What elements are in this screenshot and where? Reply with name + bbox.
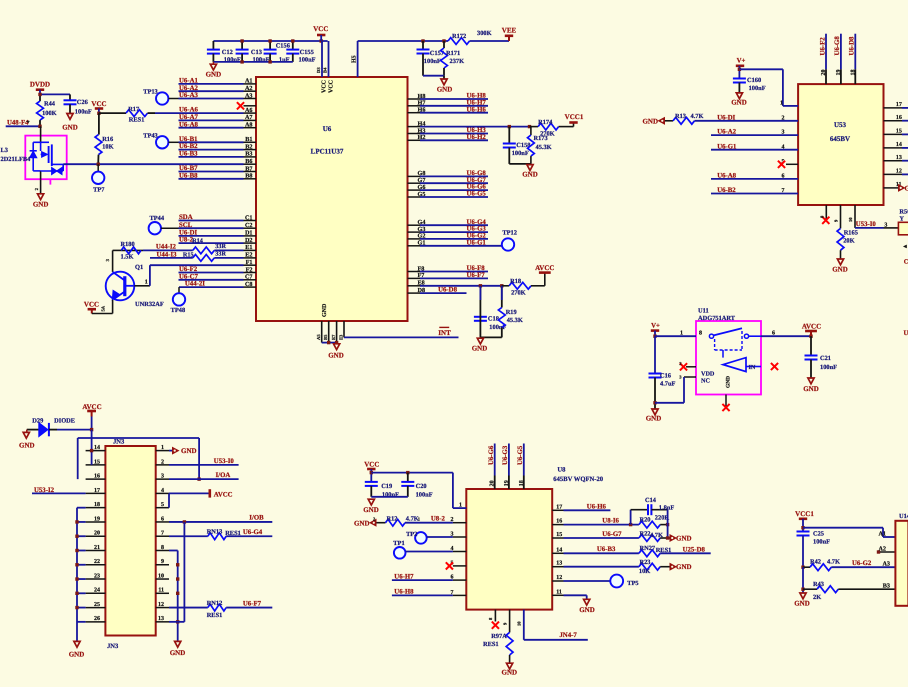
svg-text:U53: U53 bbox=[834, 121, 847, 129]
resistor R180 1.5K bbox=[105, 241, 143, 272]
svg-text:A8: A8 bbox=[245, 122, 253, 129]
svg-text:4: 4 bbox=[161, 488, 164, 494]
svg-text:12: 12 bbox=[556, 575, 562, 581]
svg-text:GND: GND bbox=[69, 651, 85, 659]
svg-text:RN13: RN13 bbox=[207, 529, 223, 536]
capacitor C160 100nF bbox=[733, 77, 766, 93]
svg-text:10: 10 bbox=[516, 621, 521, 626]
net SDA bbox=[179, 214, 244, 221]
svg-text:GND: GND bbox=[33, 200, 49, 208]
svg-text:10: 10 bbox=[158, 573, 164, 579]
ground below U6 bbox=[328, 343, 344, 360]
svg-text:JN3: JN3 bbox=[113, 439, 125, 446]
svg-text:VCC: VCC bbox=[364, 461, 379, 469]
resistor R165 20K below U53 pin 9 bbox=[834, 205, 858, 259]
svg-text:RES1: RES1 bbox=[656, 547, 672, 554]
svg-text:C20: C20 bbox=[416, 483, 427, 490]
U11 pin 4 IN no-connect bbox=[771, 363, 778, 370]
svg-text:AVCC: AVCC bbox=[82, 403, 101, 411]
svg-text:U6-D8: U6-D8 bbox=[438, 287, 457, 294]
svg-text:GND: GND bbox=[803, 385, 819, 393]
clipped net label right of U11 bbox=[904, 330, 908, 337]
svg-text:1: 1 bbox=[780, 100, 783, 106]
svg-text:I/OA: I/OA bbox=[216, 472, 231, 479]
svg-text:D29: D29 bbox=[32, 417, 43, 424]
net U48-F4 into gate node bbox=[6, 120, 40, 127]
svg-text:17: 17 bbox=[94, 488, 100, 494]
svg-text:E3: E3 bbox=[338, 334, 343, 340]
svg-text:12: 12 bbox=[158, 602, 164, 608]
wire caps bottom rail bbox=[213, 61, 292, 63]
svg-text:R15: R15 bbox=[183, 251, 194, 258]
svg-text:3: 3 bbox=[884, 223, 887, 229]
net U6-B1 with test point TP43 bbox=[143, 133, 243, 149]
svg-text:◀: ◀ bbox=[903, 244, 908, 249]
svg-text:20: 20 bbox=[821, 70, 827, 76]
svg-text:TP12: TP12 bbox=[502, 230, 517, 237]
svg-text:U6-F7: U6-F7 bbox=[467, 272, 486, 279]
svg-text:C8: C8 bbox=[245, 281, 253, 288]
svg-text:U53-I0: U53-I0 bbox=[214, 458, 235, 465]
wire JN3 pin 5 up to pin 4 bbox=[168, 493, 170, 507]
net U6-F2 into U53 pin 20 bbox=[819, 34, 827, 84]
svg-text:U44-I2: U44-I2 bbox=[156, 244, 177, 251]
test point TP5 on U8 pin 12 bbox=[564, 575, 639, 588]
svg-text:GND: GND bbox=[62, 124, 78, 132]
U11 pin 6 to AVCC bbox=[761, 330, 813, 338]
U6 right pin stubs and pin names bbox=[408, 93, 426, 294]
svg-text:B6: B6 bbox=[245, 158, 252, 165]
svg-text:JN4-7: JN4-7 bbox=[559, 632, 577, 639]
svg-text:U6-G7: U6-G7 bbox=[602, 531, 622, 538]
svg-text:TP7: TP7 bbox=[93, 187, 105, 194]
svg-text:8: 8 bbox=[699, 330, 702, 336]
svg-text:GND: GND bbox=[731, 99, 747, 107]
svg-text:V+: V+ bbox=[651, 322, 660, 329]
resistor RN13 RES1 to net U6-G4 on JN3 pin 7 bbox=[169, 529, 272, 540]
ground left of D29 bbox=[19, 430, 35, 450]
svg-text:D1: D1 bbox=[245, 230, 253, 237]
svg-text:100nF: 100nF bbox=[749, 85, 766, 92]
net U6-A1 bbox=[179, 78, 244, 85]
power DVDD bbox=[30, 81, 50, 95]
capacitor C25 100nF bbox=[797, 530, 831, 567]
U8 bottom pin 8 no-connect bbox=[488, 610, 499, 629]
svg-text:INT: INT bbox=[438, 329, 451, 337]
ground below C26 bbox=[62, 114, 78, 132]
resistor R23 10K to ground on U8 pin 13 bbox=[564, 559, 670, 575]
svg-text:11: 11 bbox=[158, 588, 164, 594]
wire VCC top rail bbox=[213, 40, 327, 42]
svg-text:I/OB: I/OB bbox=[249, 514, 264, 521]
svg-text:TP13: TP13 bbox=[143, 89, 158, 96]
svg-text:15: 15 bbox=[94, 459, 100, 465]
svg-text:AVCC: AVCC bbox=[802, 322, 821, 330]
net U6-F2 bbox=[179, 266, 244, 273]
resistor R173 45.3K bbox=[528, 127, 552, 164]
net U6-A8 bbox=[179, 121, 244, 128]
ground below R97A bbox=[502, 663, 518, 676]
resistor R15 33R on net U44-I3 (pin E2) bbox=[150, 251, 244, 262]
svg-text:VCC: VCC bbox=[91, 100, 106, 108]
resistor R172 300K bbox=[448, 30, 509, 44]
net U6-G5 into U8 pin 18 bbox=[517, 444, 525, 490]
capacitor C16 4.7uF bbox=[649, 336, 676, 409]
no-connect X on U8 pin 5 bbox=[446, 562, 453, 569]
svg-text:AVCC: AVCC bbox=[214, 491, 233, 498]
svg-text:C16: C16 bbox=[660, 372, 672, 379]
svg-text:GND: GND bbox=[19, 442, 35, 450]
svg-text:U6-A3: U6-A3 bbox=[179, 92, 198, 99]
svg-text:A3: A3 bbox=[882, 560, 890, 567]
svg-text:1: 1 bbox=[145, 280, 148, 286]
svg-text:R172: R172 bbox=[452, 33, 466, 40]
svg-text:18: 18 bbox=[94, 502, 100, 508]
svg-text:R23: R23 bbox=[640, 559, 651, 566]
junction at AVCC/diode node bbox=[90, 428, 93, 431]
svg-text:R20: R20 bbox=[640, 517, 651, 524]
svg-text:R180: R180 bbox=[121, 241, 135, 248]
svg-text:GND: GND bbox=[832, 265, 848, 273]
test point TP1 on U8 pin 4 bbox=[393, 540, 453, 559]
svg-text:GND: GND bbox=[363, 506, 379, 514]
svg-text:U53-I0: U53-I0 bbox=[856, 221, 877, 228]
diode D29 bbox=[27, 417, 92, 436]
svg-text:U6-H2: U6-H2 bbox=[467, 134, 487, 141]
svg-text:100nF: 100nF bbox=[512, 150, 529, 157]
svg-text:C7: C7 bbox=[245, 274, 253, 281]
no-connect X on U53 pin 5 bbox=[778, 161, 785, 168]
svg-text:2: 2 bbox=[161, 459, 164, 465]
svg-text:100nF: 100nF bbox=[416, 491, 433, 498]
svg-text:LPC11U37: LPC11U37 bbox=[311, 148, 344, 156]
svg-text:1.8nF: 1.8nF bbox=[659, 504, 675, 511]
svg-text:8: 8 bbox=[488, 617, 493, 620]
svg-text:1: 1 bbox=[459, 503, 462, 509]
net U6-B3 with resistor RN27 RES1 to net U25-D8 on U8 pin 14 bbox=[564, 545, 711, 557]
svg-text:U44-I3: U44-I3 bbox=[157, 251, 178, 258]
svg-text:645BV: 645BV bbox=[830, 135, 850, 143]
svg-text:C26: C26 bbox=[77, 99, 89, 106]
svg-text:25: 25 bbox=[94, 602, 100, 608]
capacitor C14 1.8nF parallel with R20 bbox=[631, 497, 675, 538]
net U6-G5 bbox=[420, 191, 488, 198]
svg-text:RES1: RES1 bbox=[225, 530, 241, 537]
net U6-H7 bbox=[420, 99, 488, 106]
svg-text:U6-H8: U6-H8 bbox=[394, 589, 414, 596]
svg-text:U6-F2: U6-F2 bbox=[179, 266, 198, 273]
power VCC1 right of R174 bbox=[565, 113, 584, 123]
svg-text:U6-A2: U6-A2 bbox=[179, 85, 198, 92]
svg-text:100nF: 100nF bbox=[299, 56, 316, 63]
svg-text:U8-I6: U8-I6 bbox=[602, 517, 619, 524]
svg-text:RES1: RES1 bbox=[207, 612, 223, 619]
svg-text:19: 19 bbox=[504, 480, 510, 486]
svg-text:IN: IN bbox=[749, 364, 756, 371]
svg-text:11: 11 bbox=[556, 589, 562, 595]
svg-text:C1: C1 bbox=[245, 214, 253, 221]
net U6-G7 bbox=[420, 177, 488, 184]
svg-text:R42: R42 bbox=[810, 558, 821, 565]
svg-text:U: U bbox=[904, 330, 908, 337]
svg-text:U6-G3: U6-G3 bbox=[502, 445, 509, 465]
svg-text:14: 14 bbox=[94, 445, 100, 451]
svg-text:F2: F2 bbox=[246, 266, 253, 273]
svg-text:U53-I2: U53-I2 bbox=[34, 487, 55, 494]
ground right of R22 bbox=[670, 534, 692, 542]
svg-text:U6-A7: U6-A7 bbox=[179, 114, 198, 121]
svg-text:4.7K: 4.7K bbox=[827, 558, 840, 565]
svg-text:GND: GND bbox=[437, 85, 453, 93]
U6 pin H5 wire to top rail bbox=[351, 41, 448, 77]
svg-text:TP44: TP44 bbox=[150, 215, 165, 222]
svg-text:7: 7 bbox=[161, 531, 164, 537]
svg-text:H5: H5 bbox=[351, 55, 357, 63]
svg-text:TP5: TP5 bbox=[627, 580, 638, 587]
svg-text:19: 19 bbox=[836, 70, 842, 76]
svg-text:DVDD: DVDD bbox=[30, 81, 50, 89]
svg-text:U6: U6 bbox=[323, 125, 332, 133]
ground below R171 bbox=[437, 76, 453, 94]
svg-text:U6-H7: U6-H7 bbox=[394, 573, 414, 580]
svg-text:U6-B2: U6-B2 bbox=[179, 143, 198, 150]
svg-text:VCC: VCC bbox=[313, 25, 328, 33]
wire V+ to U53 pin 1 bbox=[739, 69, 798, 106]
ground below C18 bbox=[472, 338, 488, 352]
svg-text:100nF: 100nF bbox=[813, 539, 830, 546]
capacitor C20 100nF bbox=[401, 473, 432, 499]
svg-text:R18: R18 bbox=[510, 278, 521, 285]
svg-text:1: 1 bbox=[418, 517, 421, 522]
svg-text:UNR32AF: UNR32AF bbox=[135, 301, 164, 308]
svg-text:E2: E2 bbox=[245, 252, 252, 259]
svg-text:19: 19 bbox=[94, 516, 100, 522]
svg-text:B8: B8 bbox=[245, 173, 252, 180]
power VEE bbox=[502, 27, 517, 42]
svg-text:100K: 100K bbox=[42, 110, 57, 117]
net U6-G3 into U8 pin 19 bbox=[502, 444, 510, 490]
power V+ for U53 bbox=[736, 58, 746, 79]
svg-text:300K: 300K bbox=[477, 30, 492, 37]
svg-text:13: 13 bbox=[158, 616, 164, 622]
svg-text:U6-B1: U6-B1 bbox=[179, 136, 198, 143]
svg-text:U44-2I: U44-2I bbox=[185, 280, 205, 287]
svg-text:5: 5 bbox=[161, 502, 164, 508]
wire INT from U6 bottom pin bbox=[338, 321, 458, 340]
svg-text:B2: B2 bbox=[245, 143, 252, 150]
junction at DVDD node bbox=[38, 93, 41, 96]
svg-text:U6-A8: U6-A8 bbox=[717, 173, 736, 180]
svg-text:GND: GND bbox=[905, 184, 908, 192]
ground below C25/R43 node bbox=[794, 593, 810, 608]
svg-text:24: 24 bbox=[94, 588, 100, 594]
svg-text:VCC1: VCC1 bbox=[795, 510, 814, 518]
U6 bottom ground pins bbox=[316, 321, 338, 344]
svg-text:U6-B7: U6-B7 bbox=[179, 165, 198, 172]
svg-text:18: 18 bbox=[850, 70, 856, 76]
U8 right pin numbers bbox=[552, 504, 563, 595]
net U6-B7 bbox=[179, 165, 244, 172]
svg-text:C19: C19 bbox=[381, 483, 392, 490]
power AVCC right of U11 bbox=[802, 322, 821, 336]
resistor R50 (clipped at edge) bbox=[898, 208, 908, 234]
JN3 right pin stubs 1-13 bbox=[156, 445, 169, 622]
net U8-I6 with resistor R20 220R on U8 pin 16 bbox=[564, 514, 670, 528]
svg-text:3: 3 bbox=[161, 474, 164, 480]
ground and resistor R13 4.7K to U53 pin 2 bbox=[642, 113, 711, 126]
svg-text:U6-F7: U6-F7 bbox=[243, 601, 262, 608]
capacitor C13 100nF bbox=[236, 41, 270, 63]
JN3 left pin stubs 14-26 bbox=[86, 445, 106, 622]
power VCC for U8 bbox=[364, 461, 379, 482]
connector JN3 body bbox=[105, 439, 155, 650]
transistor Q1 UNR32AF bbox=[106, 264, 164, 313]
svg-text:V+: V+ bbox=[737, 58, 746, 65]
svg-text:14: 14 bbox=[556, 547, 562, 553]
net U6-H2 bbox=[420, 134, 488, 141]
net U6-D8 into U53 pin 18 bbox=[849, 34, 857, 84]
power VCC at Q1 emitter bbox=[84, 301, 113, 314]
svg-text:6: 6 bbox=[772, 330, 775, 336]
svg-text:2: 2 bbox=[34, 187, 39, 190]
svg-text:GND: GND bbox=[646, 414, 662, 422]
net U6-G1 with test point TP12 bbox=[420, 230, 517, 251]
ground below JN3 right bbox=[170, 641, 186, 657]
net label INT with overline bbox=[438, 327, 451, 337]
svg-text:U6-G1: U6-G1 bbox=[717, 143, 737, 150]
svg-text:5A: 5A bbox=[101, 305, 106, 311]
svg-text:4.7K: 4.7K bbox=[691, 113, 704, 120]
svg-text:L3: L3 bbox=[1, 147, 8, 154]
net SCL with test point TP44 bbox=[149, 215, 244, 235]
svg-text:3: 3 bbox=[105, 258, 110, 261]
net U6-G4 bbox=[420, 219, 488, 226]
svg-text:TP48: TP48 bbox=[171, 307, 186, 314]
svg-text:17: 17 bbox=[556, 504, 562, 510]
net U6-B3 bbox=[179, 151, 244, 158]
net U53-I2 on JN3 pin 17 bbox=[32, 487, 86, 494]
svg-text:U6-G8: U6-G8 bbox=[834, 36, 841, 56]
svg-text:23: 23 bbox=[94, 573, 100, 579]
net U6-F8 bbox=[420, 265, 488, 272]
resistor RN12 RES1 to net U6-F7 on JN3 pin 12 bbox=[169, 600, 272, 619]
svg-text:GND: GND bbox=[502, 669, 518, 677]
ground right of JN3 pin 1 bbox=[169, 447, 197, 455]
svg-text:U6-B3: U6-B3 bbox=[179, 151, 198, 158]
svg-text:4.7uF: 4.7uF bbox=[660, 381, 676, 388]
power V+ for U11 bbox=[651, 322, 660, 338]
svg-text:U8: U8 bbox=[557, 467, 566, 474]
svg-text:RN12: RN12 bbox=[207, 600, 223, 607]
wire VCC1 to U14 pin A1 bbox=[801, 526, 895, 537]
resistor R42 4.7K to net U6-G2 on U14 pin A3 bbox=[801, 558, 895, 570]
net U6-H6 bbox=[420, 106, 488, 113]
svg-text:GND: GND bbox=[181, 447, 197, 455]
U53 bottom pin 8 no-connect bbox=[820, 205, 830, 224]
svg-text:R22: R22 bbox=[640, 531, 651, 538]
ground right of R23 bbox=[670, 563, 692, 571]
net U6-G6 bbox=[420, 184, 488, 191]
wire JN3 pins 18-26 to ground bbox=[75, 508, 85, 642]
capacitor C21 100nF bbox=[805, 336, 838, 378]
svg-text:TP1: TP1 bbox=[393, 540, 404, 547]
svg-text:100nF: 100nF bbox=[75, 109, 92, 116]
resistor R43 2K on U14 pin B3 bbox=[801, 567, 895, 601]
test point TP2 on U8 pin 3 bbox=[406, 531, 453, 544]
svg-text:270K: 270K bbox=[511, 290, 526, 297]
IC U8 645BV WQFN-20 body bbox=[466, 467, 603, 610]
net U6-G3 bbox=[420, 226, 488, 233]
power VCC1 bottom right bbox=[795, 510, 814, 532]
net I/OA on JN3 pin 3 bbox=[169, 472, 239, 479]
svg-text:U6-A1: U6-A1 bbox=[179, 78, 198, 85]
svg-text:237K: 237K bbox=[450, 58, 465, 65]
svg-text:RES1: RES1 bbox=[129, 116, 145, 123]
svg-text:20: 20 bbox=[94, 531, 100, 537]
capacitor C18 100nF bbox=[474, 286, 507, 338]
wire AVCC stem to JN3 pins 14-15 bbox=[90, 430, 93, 465]
wire loop joining JN3 pin 16 and pin 3 bbox=[78, 438, 201, 481]
svg-text:A5: A5 bbox=[316, 334, 321, 340]
clipped capacitor marks at right edge bbox=[903, 244, 908, 266]
resistor R97A RES1 below U8 pin 9 bbox=[483, 610, 513, 664]
svg-text:R19: R19 bbox=[506, 309, 517, 316]
net U8-2 bbox=[179, 237, 244, 244]
svg-text:R174: R174 bbox=[538, 119, 553, 126]
switch contacts inside U11 bbox=[709, 328, 761, 371]
wire DVDD rail bbox=[40, 94, 70, 101]
U14 pin A2 stub bbox=[877, 545, 896, 553]
U53 left pins with nets bbox=[711, 114, 798, 194]
svg-text:R16: R16 bbox=[102, 136, 114, 143]
junctions on cap rails bbox=[240, 39, 323, 63]
svg-text:U6-A8: U6-A8 bbox=[179, 121, 198, 128]
svg-text:DIODE: DIODE bbox=[54, 417, 75, 424]
U11 pin 2 VDD no-connect bbox=[679, 361, 715, 378]
svg-text:U14: U14 bbox=[899, 513, 908, 520]
ground below mosfet bbox=[33, 179, 49, 208]
svg-text:U6-DI: U6-DI bbox=[717, 114, 735, 121]
IC U6 LPC11U37 microcontroller body bbox=[256, 77, 408, 321]
svg-text:E7: E7 bbox=[331, 334, 336, 340]
resistor R17 RES1 to pin A6 bbox=[99, 106, 244, 123]
power VCC above U6 bbox=[313, 25, 328, 41]
svg-text:VCC: VCC bbox=[329, 80, 335, 93]
net U6-G2 bbox=[420, 233, 488, 240]
capacitor C158 100nF bbox=[503, 127, 531, 164]
svg-text:VCC: VCC bbox=[84, 301, 99, 309]
svg-text:U6-H6: U6-H6 bbox=[467, 106, 487, 113]
ground right of U53 pin 11 bbox=[899, 184, 908, 192]
svg-text:Q1: Q1 bbox=[135, 264, 143, 271]
analog switch U11 ADG751ART select box bbox=[696, 307, 761, 394]
svg-text:1.5K: 1.5K bbox=[121, 254, 134, 261]
svg-text:R13: R13 bbox=[675, 113, 686, 120]
svg-text:A1: A1 bbox=[878, 530, 886, 537]
junction at gate node bbox=[38, 125, 41, 128]
svg-text:9: 9 bbox=[834, 219, 839, 222]
svg-text:1: 1 bbox=[161, 445, 164, 451]
svg-text:C12: C12 bbox=[222, 49, 233, 56]
svg-text:GND: GND bbox=[579, 606, 595, 614]
svg-text:GND: GND bbox=[676, 563, 692, 571]
wire mosfet drain to U6 pin B6 bbox=[63, 163, 243, 165]
resistor R16 10K bbox=[95, 113, 114, 164]
svg-text:A2: A2 bbox=[245, 85, 253, 92]
svg-text:26: 26 bbox=[94, 616, 100, 622]
U11 pin 3 NC tied to C16 ground bbox=[655, 375, 710, 403]
mosfet L3 2D21LFB4 in select box bbox=[1, 126, 67, 184]
